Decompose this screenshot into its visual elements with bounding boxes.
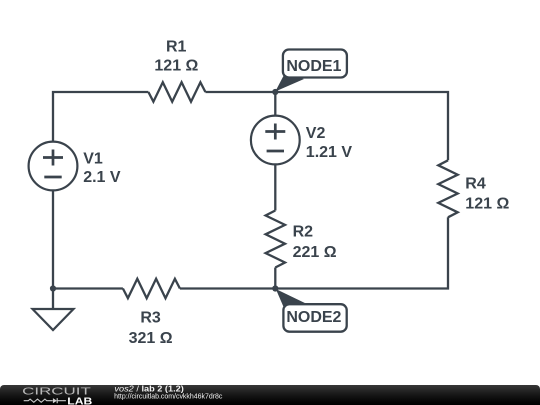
svg-text:1.21 V: 1.21 V bbox=[306, 144, 353, 161]
svg-text:221 Ω: 221 Ω bbox=[293, 244, 337, 261]
svg-text:2.1 V: 2.1 V bbox=[83, 169, 121, 186]
svg-text:R3: R3 bbox=[140, 310, 161, 327]
svg-text:NODE2: NODE2 bbox=[286, 309, 341, 326]
svg-text:R4: R4 bbox=[465, 175, 486, 192]
svg-text:V2: V2 bbox=[306, 125, 326, 142]
svg-text:121 Ω: 121 Ω bbox=[154, 58, 198, 75]
svg-text:http://circuitlab.com/cvkkh46k: http://circuitlab.com/cvkkh46k7dr8c bbox=[114, 391, 223, 400]
svg-text:LAB: LAB bbox=[67, 396, 93, 405]
svg-text:R1: R1 bbox=[166, 39, 187, 56]
svg-text:R2: R2 bbox=[293, 224, 314, 241]
svg-text:V1: V1 bbox=[83, 150, 103, 167]
svg-text:321 Ω: 321 Ω bbox=[129, 330, 173, 347]
svg-text:NODE1: NODE1 bbox=[286, 58, 341, 75]
svg-text:121 Ω: 121 Ω bbox=[465, 196, 509, 213]
